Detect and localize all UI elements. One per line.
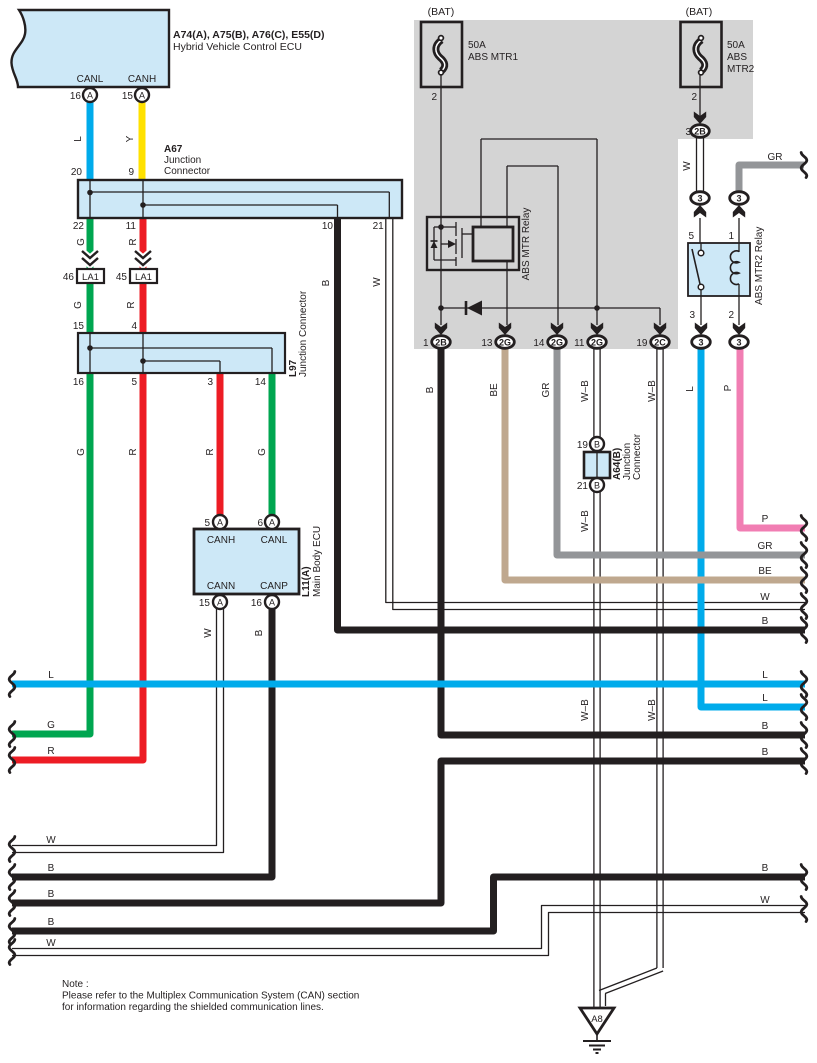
svg-text:2: 2 <box>728 310 734 321</box>
svg-text:CANN: CANN <box>207 581 235 592</box>
wire L horizontal full width <box>12 681 805 688</box>
svg-text:LA1: LA1 <box>82 272 99 283</box>
svg-text:G: G <box>47 720 55 731</box>
svg-text:W: W <box>682 161 693 171</box>
svg-text:W: W <box>760 895 770 906</box>
svg-text:2G: 2G <box>499 338 511 348</box>
relay1 connection lines <box>480 139 482 227</box>
connector ovals 3 below MTR2 relay <box>692 336 711 349</box>
svg-text:Connector: Connector <box>632 433 643 480</box>
svg-text:A74(A), A75(B), A76(C), E55(D): A74(A), A75(B), A76(C), E55(D) <box>173 29 325 41</box>
svg-text:3: 3 <box>736 194 741 204</box>
svg-text:21: 21 <box>373 221 385 232</box>
svg-text:Please refer to the Multiplex: Please refer to the Multiplex Communicat… <box>62 991 359 1002</box>
svg-text:Junction: Junction <box>164 155 201 166</box>
svg-text:A: A <box>217 597 223 607</box>
wire G to left edge y734 <box>12 373 90 734</box>
wire G A67 pin22 to L97 pin15 <box>87 217 94 333</box>
wire L from ECU pin 16 <box>87 101 94 182</box>
svg-text:15: 15 <box>122 91 134 102</box>
svg-text:11: 11 <box>574 338 585 349</box>
svg-text:MTR2: MTR2 <box>727 64 755 75</box>
svg-text:A: A <box>87 90 93 100</box>
svg-text:W–B: W–B <box>647 380 658 402</box>
svg-text:1: 1 <box>423 338 429 349</box>
L97 internal wires <box>89 333 91 373</box>
wire B from connector 2B pin1 to right edge y734 <box>441 349 805 735</box>
connector 46 LA1 <box>77 269 104 283</box>
wire R to left edge y760 <box>12 373 143 760</box>
relay2 coil <box>738 243 740 252</box>
svg-text:5: 5 <box>204 518 210 529</box>
svg-text:2B: 2B <box>435 338 447 348</box>
svg-text:B: B <box>594 480 600 490</box>
connector oval 2G pin 11 <box>591 323 603 336</box>
svg-text:W: W <box>46 938 56 949</box>
junction connector L97 bar <box>78 333 285 373</box>
svg-text:ABS MTR Relay: ABS MTR Relay <box>521 208 532 281</box>
svg-text:G: G <box>73 301 84 309</box>
svg-text:W–B: W–B <box>580 380 591 402</box>
connector 45 LA1 <box>130 269 157 283</box>
svg-text:3: 3 <box>736 338 741 348</box>
connector oval 2C pin 19 <box>654 323 666 336</box>
wire B from A67 pin 10 to right edge y630 <box>338 218 806 630</box>
svg-text:3: 3 <box>698 338 703 348</box>
svg-text:L: L <box>48 670 54 681</box>
svg-text:16: 16 <box>70 91 82 102</box>
svg-text:GR: GR <box>768 152 783 163</box>
wire W-B from 2G pin11 down to ground <box>593 349 595 437</box>
svg-text:P: P <box>723 384 734 391</box>
svg-text:B: B <box>762 721 769 732</box>
ABS MTR Relay outer box <box>427 217 519 270</box>
svg-text:10: 10 <box>322 221 334 232</box>
wire W-B from 2C pin19 down, diagonal to ground stem <box>656 349 658 968</box>
shield chevrons left <box>82 251 98 258</box>
relay2 pin lines to bottom ovals <box>700 296 702 325</box>
svg-text:6: 6 <box>257 518 263 529</box>
svg-text:B: B <box>594 439 600 449</box>
svg-text:B: B <box>254 629 265 636</box>
svg-text:B: B <box>48 889 55 900</box>
svg-text:46: 46 <box>63 272 75 283</box>
svg-text:R: R <box>128 238 139 245</box>
wire GR from 2G pin14 to right edge y555 <box>557 349 805 555</box>
svg-text:20: 20 <box>71 167 83 178</box>
svg-text:CANP: CANP <box>260 581 288 592</box>
svg-text:14: 14 <box>255 377 267 388</box>
svg-text:CANH: CANH <box>207 535 235 546</box>
svg-text:CANL: CANL <box>77 74 104 85</box>
connector oval 2G pin 13 <box>499 323 511 336</box>
wire W fuse2 2B oval to relay oval 3 <box>696 138 698 192</box>
svg-text:22: 22 <box>73 221 85 232</box>
svg-text:(BAT): (BAT) <box>428 6 455 18</box>
wire W from CANN to left edge <box>12 609 217 846</box>
wire P from relay oval to right edge y527 <box>740 349 805 528</box>
svg-text:L: L <box>762 670 768 681</box>
A67 internal wires <box>89 180 91 218</box>
svg-text:21: 21 <box>577 481 589 492</box>
svg-text:ABS: ABS <box>727 52 747 63</box>
svg-text:B: B <box>762 616 769 627</box>
svg-text:11: 11 <box>126 221 137 232</box>
relay1 MOSFET <box>438 224 444 230</box>
svg-text:3: 3 <box>207 377 213 388</box>
svg-text:13: 13 <box>481 338 493 349</box>
svg-text:ABS MTR2 Relay: ABS MTR2 Relay <box>754 227 765 305</box>
svg-text:R: R <box>47 746 54 757</box>
svg-text:B: B <box>321 279 332 286</box>
svg-text:2: 2 <box>691 92 697 103</box>
svg-text:A: A <box>269 597 275 607</box>
svg-text:W–B: W–B <box>580 699 591 721</box>
svg-text:L: L <box>73 136 84 142</box>
svg-text:B: B <box>425 386 436 393</box>
svg-text:Junction Connector: Junction Connector <box>298 290 309 377</box>
svg-text:R: R <box>205 448 216 455</box>
wire L from relay oval to right edge y707 <box>701 349 805 707</box>
shield chevrons right <box>135 251 151 258</box>
svg-text:G: G <box>257 448 268 456</box>
relay1 coil box <box>473 227 513 261</box>
svg-text:GR: GR <box>758 541 773 552</box>
wire Y from ECU pin 15 <box>139 101 146 182</box>
wire fuse2 to 2B oval <box>699 75 701 118</box>
svg-text:R: R <box>126 301 137 308</box>
svg-text:3: 3 <box>697 194 702 204</box>
svg-text:9: 9 <box>128 167 134 178</box>
connector ovals 3 above MTR2 relay <box>691 192 710 205</box>
svg-text:L11(A): L11(A) <box>301 566 312 597</box>
svg-text:R: R <box>128 448 139 455</box>
wire fuse1 to relay <box>440 75 442 227</box>
svg-text:2G: 2G <box>591 338 603 348</box>
svg-text:45: 45 <box>116 272 128 283</box>
svg-text:L: L <box>685 386 696 392</box>
junction connector A67 bar <box>78 180 402 218</box>
svg-text:A: A <box>139 90 145 100</box>
svg-text:BE: BE <box>758 566 772 577</box>
wire G L97 pin14 to L11 CANL <box>269 373 276 515</box>
svg-text:A: A <box>269 517 275 527</box>
svg-text:W: W <box>760 592 770 603</box>
right edge breaks and labels <box>801 153 807 178</box>
svg-text:4: 4 <box>131 321 137 332</box>
svg-text:W: W <box>372 277 383 287</box>
svg-text:for information regarding the: for information regarding the shielded c… <box>62 1002 324 1013</box>
svg-text:G: G <box>76 238 87 246</box>
svg-text:16: 16 <box>251 598 263 609</box>
wire W net right y909 to left y952 <box>12 906 805 949</box>
svg-text:A: A <box>217 517 223 527</box>
svg-text:2C: 2C <box>654 338 666 348</box>
svg-text:G: G <box>76 448 87 456</box>
svg-text:15: 15 <box>73 321 85 332</box>
svg-text:2B: 2B <box>694 127 706 137</box>
gray harness background <box>414 20 753 349</box>
wire B net right y876 to left y931 <box>12 877 805 931</box>
svg-text:1: 1 <box>728 231 734 242</box>
svg-text:BE: BE <box>489 383 500 397</box>
svg-text:Y: Y <box>125 135 136 142</box>
svg-text:50A: 50A <box>468 40 486 51</box>
svg-text:2: 2 <box>431 92 437 103</box>
svg-text:(BAT): (BAT) <box>686 6 713 18</box>
svg-text:A8: A8 <box>591 1014 603 1025</box>
svg-text:B: B <box>762 863 769 874</box>
ground A8 <box>580 1008 614 1034</box>
svg-text:W: W <box>46 835 56 846</box>
wire R L97 pin3 to L11 CANH <box>217 373 224 515</box>
svg-text:Note :: Note : <box>62 979 89 990</box>
svg-text:B: B <box>762 747 769 758</box>
svg-text:19: 19 <box>577 440 589 451</box>
svg-text:Hybrid Vehicle Control ECU: Hybrid Vehicle Control ECU <box>173 41 302 53</box>
svg-text:GR: GR <box>541 383 552 398</box>
svg-text:5: 5 <box>688 231 694 242</box>
L11(A) Main Body ECU box <box>194 529 299 594</box>
ECU A74/A75/A76/E55 Hybrid Vehicle Control ECU box <box>11 10 169 87</box>
svg-text:CANH: CANH <box>128 74 156 85</box>
wire R A67 pin11 to L97 pin4 <box>140 217 147 333</box>
svg-text:Main Body ECU: Main Body ECU <box>312 526 323 597</box>
wire W from A67 pin 21 to right edge <box>386 218 805 603</box>
svg-text:LA1: LA1 <box>135 272 152 283</box>
svg-text:2G: 2G <box>551 338 563 348</box>
wire GR top from relay oval to right edge y165 <box>739 165 804 193</box>
svg-text:CANL: CANL <box>261 535 288 546</box>
svg-text:L: L <box>762 693 768 704</box>
svg-text:B: B <box>48 917 55 928</box>
connector oval 2B pin 1 <box>435 323 447 336</box>
svg-text:19: 19 <box>636 338 648 349</box>
svg-text:Connector: Connector <box>164 166 211 177</box>
svg-text:B: B <box>48 863 55 874</box>
svg-text:50A: 50A <box>727 40 745 51</box>
left edge breaks and labels <box>9 672 15 697</box>
svg-text:W–B: W–B <box>580 510 591 532</box>
svg-text:P: P <box>762 514 769 525</box>
ABS MTR2 Relay box <box>688 243 750 296</box>
svg-text:16: 16 <box>73 377 85 388</box>
svg-text:ABS MTR1: ABS MTR1 <box>468 52 518 63</box>
svg-text:5: 5 <box>131 377 137 388</box>
svg-text:15: 15 <box>199 598 211 609</box>
svg-text:A67: A67 <box>164 144 183 155</box>
svg-text:3: 3 <box>689 310 695 321</box>
svg-text:14: 14 <box>533 338 545 349</box>
svg-text:W: W <box>203 628 214 638</box>
svg-text:W–B: W–B <box>647 699 658 721</box>
connector oval 2G pin 14 <box>551 323 563 336</box>
wire B from CANP to left edge y877 <box>12 609 272 877</box>
wire BE from 2G pin13 to right edge y580 <box>505 349 805 580</box>
wire B net right y760 to left y903 <box>12 761 805 903</box>
relay2 switch <box>700 243 702 250</box>
diode line and diode <box>441 307 660 309</box>
